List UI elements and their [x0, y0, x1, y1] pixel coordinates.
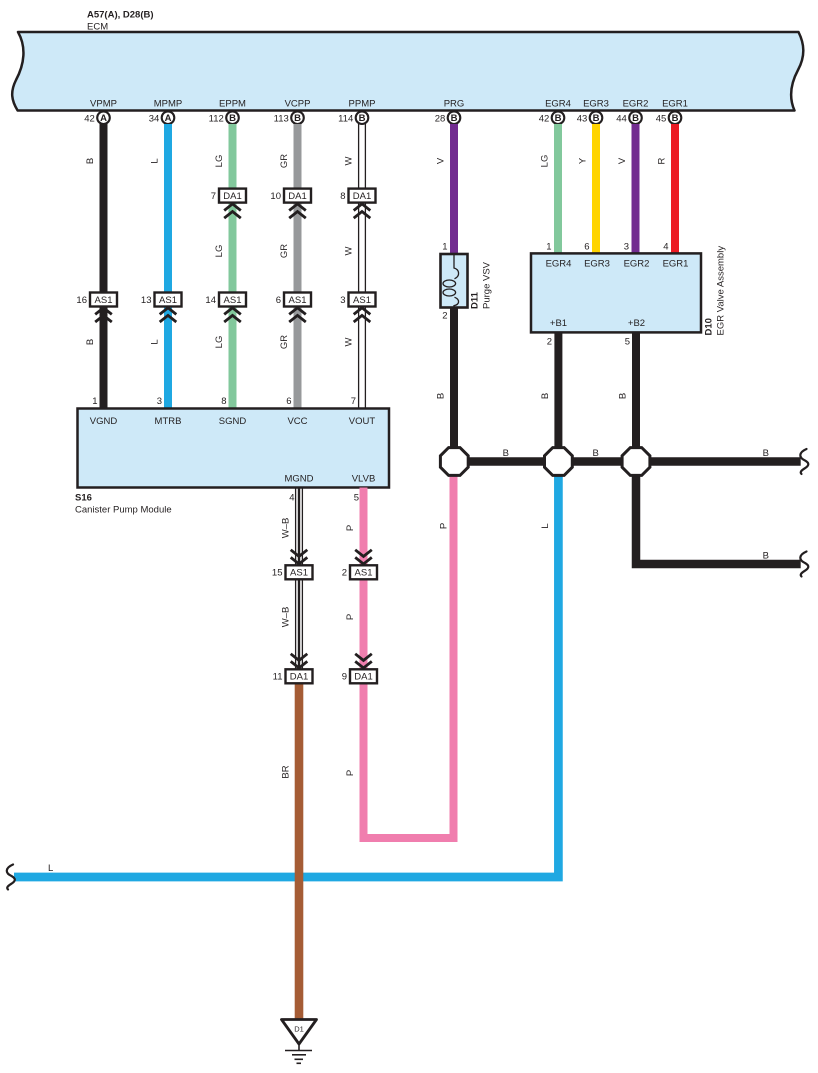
svg-text:A57(A), D28(B): A57(A), D28(B)	[87, 10, 154, 21]
svg-text:V: V	[617, 157, 628, 164]
svg-text:ECM: ECM	[87, 22, 108, 33]
wire B D11 to junction	[450, 307, 458, 462]
svg-text:B: B	[503, 448, 509, 459]
svg-text:EGR4: EGR4	[545, 99, 571, 110]
svg-text:4: 4	[289, 493, 294, 504]
svg-text:D11: D11	[470, 291, 481, 309]
svg-text:P: P	[345, 770, 356, 776]
svg-text:113: 113	[274, 113, 289, 124]
junction node J2	[545, 448, 573, 476]
svg-text:AS1: AS1	[224, 295, 242, 306]
svg-text:5: 5	[354, 493, 359, 504]
ECM connector pin 43(B) EGR3	[577, 111, 603, 124]
wire break symbol right upper	[800, 449, 808, 474]
svg-text:GR: GR	[279, 154, 290, 168]
svg-text:B: B	[632, 113, 639, 124]
svg-text:3: 3	[340, 295, 345, 306]
svg-text:B: B	[672, 113, 679, 124]
svg-text:EPPM: EPPM	[219, 99, 246, 110]
svg-text:VOUT: VOUT	[349, 416, 376, 427]
svg-text:1: 1	[92, 396, 97, 407]
svg-text:114: 114	[338, 113, 353, 124]
svg-text:GR: GR	[279, 335, 290, 349]
svg-text:B: B	[618, 393, 629, 399]
wire PRG V ECM to D11	[450, 124, 458, 254]
svg-text:+B2: +B2	[628, 318, 645, 329]
svg-text:EGR Valve Assembly: EGR Valve Assembly	[716, 246, 727, 336]
svg-text:LG: LG	[214, 155, 225, 168]
svg-text:Canister Pump Module: Canister Pump Module	[75, 505, 172, 516]
svg-text:10: 10	[270, 191, 281, 202]
svg-text:DA1: DA1	[354, 672, 372, 683]
svg-text:MPMP: MPMP	[154, 99, 183, 110]
connector AS1 pin 16	[76, 293, 117, 323]
ECM connector pin 113(B) VCPP	[274, 111, 304, 124]
svg-text:EGR1: EGR1	[662, 99, 688, 110]
svg-text:3: 3	[157, 396, 162, 407]
svg-text:W–B: W–B	[281, 607, 292, 628]
D11 Purge VSV block	[441, 254, 493, 309]
svg-text:B: B	[593, 448, 599, 459]
svg-text:8: 8	[221, 396, 226, 407]
wire break symbol right lower	[800, 552, 808, 577]
connector AS1 pin 13	[141, 293, 182, 323]
svg-text:VLVB: VLVB	[352, 474, 376, 485]
svg-text:SGND: SGND	[219, 416, 247, 427]
wire BR to ground D1	[295, 685, 304, 1020]
wire break symbol left	[7, 865, 15, 890]
svg-text:B: B	[540, 393, 551, 399]
svg-text:EGR2: EGR2	[624, 259, 650, 270]
wire MGND W-B S16 to DA1	[296, 488, 303, 669]
svg-text:P: P	[345, 525, 356, 531]
svg-text:11: 11	[273, 672, 283, 683]
svg-text:B: B	[763, 551, 769, 562]
svg-text:P: P	[439, 523, 450, 529]
connector AS1 pin 15	[272, 550, 313, 580]
wire B +B2 to junction	[632, 332, 640, 461]
svg-text:AS1: AS1	[353, 295, 371, 306]
wire EGR3 colour Y ECM to D10	[592, 124, 600, 253]
svg-text:R: R	[657, 157, 668, 164]
junction node J3	[622, 448, 650, 476]
svg-text:3: 3	[624, 242, 629, 253]
wire MPMP colour L ECM to S16	[164, 124, 172, 410]
svg-text:A: A	[165, 113, 172, 124]
svg-text:AS1: AS1	[95, 295, 113, 306]
ECM connector pin 45(B) EGR1	[656, 111, 682, 124]
svg-text:DA1: DA1	[290, 672, 308, 683]
connector AS1 pin 3	[340, 293, 375, 323]
svg-text:112: 112	[209, 113, 224, 124]
svg-text:VCC: VCC	[287, 416, 307, 427]
wire PPMP colour W ECM to S16	[359, 124, 366, 410]
svg-text:L: L	[150, 158, 161, 163]
ECM connector pin 28(B) PRG	[435, 111, 461, 124]
ECM connector pin 42(A) VPMP	[84, 111, 110, 124]
svg-text:B: B	[294, 113, 301, 124]
svg-text:7: 7	[351, 396, 356, 407]
wire EPPM colour LG ECM to S16	[229, 124, 237, 410]
svg-text:V: V	[436, 157, 447, 164]
svg-text:43: 43	[577, 113, 588, 124]
svg-text:PRG: PRG	[444, 99, 465, 110]
svg-text:EGR2: EGR2	[623, 99, 649, 110]
svg-text:9: 9	[342, 672, 347, 683]
svg-text:PPMP: PPMP	[349, 99, 376, 110]
ECM connector pin 42(B) EGR4	[539, 111, 565, 124]
wire L junction2 down and left to break	[14, 474, 558, 877]
svg-text:EGR3: EGR3	[583, 99, 609, 110]
svg-text:D10: D10	[704, 318, 715, 335]
wire B +B1 to junction	[554, 332, 562, 461]
svg-text:B: B	[436, 393, 447, 399]
ECM connector pin 114(B) PPMP	[338, 111, 368, 124]
svg-text:1: 1	[546, 242, 551, 253]
S16 Canister Pump Module block	[75, 409, 389, 516]
wire B horizontal bus junction1-junction3 to break	[454, 457, 800, 466]
ECM connector pin 44(B) EGR2	[616, 111, 642, 124]
svg-text:2: 2	[442, 311, 447, 322]
svg-text:2: 2	[342, 568, 347, 579]
svg-text:W: W	[344, 156, 355, 165]
svg-text:42: 42	[84, 113, 95, 124]
svg-text:VPMP: VPMP	[90, 99, 117, 110]
svg-text:44: 44	[616, 113, 627, 124]
svg-text:B: B	[85, 158, 96, 164]
svg-text:S16: S16	[75, 493, 92, 504]
wire VLVB P S16 to junction (U shape)	[364, 474, 454, 838]
svg-text:B: B	[229, 113, 236, 124]
svg-text:LG: LG	[540, 155, 551, 168]
svg-text:DA1: DA1	[223, 191, 241, 202]
svg-text:AS1: AS1	[159, 295, 177, 306]
svg-text:+B1: +B1	[550, 318, 567, 329]
svg-text:W–B: W–B	[281, 518, 292, 539]
svg-text:14: 14	[205, 295, 216, 306]
svg-text:MTRB: MTRB	[155, 416, 182, 427]
junction node J1	[440, 448, 468, 476]
svg-text:W: W	[344, 337, 355, 346]
svg-text:EGR3: EGR3	[584, 259, 610, 270]
svg-text:B: B	[593, 113, 600, 124]
connector DA1 pin 11	[273, 654, 313, 684]
connector AS1 pin 2	[342, 550, 377, 580]
ground symbol D1	[282, 1020, 317, 1064]
svg-text:VGND: VGND	[90, 416, 118, 427]
svg-text:LG: LG	[214, 245, 225, 258]
svg-text:Y: Y	[578, 157, 589, 164]
svg-text:BR: BR	[281, 765, 292, 778]
wire B junction3 down and right to break	[636, 470, 801, 564]
svg-text:B: B	[85, 339, 96, 345]
svg-text:LG: LG	[214, 336, 225, 349]
svg-text:16: 16	[76, 295, 87, 306]
svg-text:4: 4	[663, 242, 668, 253]
svg-text:B: B	[451, 113, 458, 124]
svg-text:AS1: AS1	[289, 295, 307, 306]
svg-text:A: A	[100, 113, 107, 124]
svg-text:MGND: MGND	[284, 474, 313, 485]
wire EGR4 colour LG ECM to D10	[554, 124, 562, 253]
svg-text:B: B	[359, 113, 366, 124]
svg-text:DA1: DA1	[353, 191, 371, 202]
wire EGR2 colour V ECM to D10	[632, 124, 640, 253]
svg-text:13: 13	[141, 295, 152, 306]
svg-text:6: 6	[584, 242, 589, 253]
connector DA1 pin 10	[270, 189, 311, 219]
wire VPMP colour B ECM to S16	[100, 124, 108, 410]
svg-text:P: P	[345, 614, 356, 620]
D10 EGR Valve Assembly block	[531, 246, 727, 336]
svg-text:AS1: AS1	[290, 568, 308, 579]
ECM connector pin 34(A) MPMP	[149, 111, 175, 124]
connector DA1 pin 7	[211, 189, 246, 219]
svg-text:D1: D1	[294, 1025, 304, 1034]
svg-text:42: 42	[539, 113, 550, 124]
svg-text:15: 15	[272, 568, 283, 579]
svg-text:2: 2	[547, 337, 552, 348]
svg-text:W: W	[344, 246, 355, 255]
svg-text:45: 45	[656, 113, 667, 124]
connector AS1 pin 6	[276, 293, 311, 323]
svg-text:L: L	[150, 339, 161, 344]
svg-text:5: 5	[625, 337, 630, 348]
svg-text:6: 6	[276, 295, 281, 306]
svg-text:B: B	[555, 113, 562, 124]
svg-text:DA1: DA1	[288, 191, 306, 202]
svg-text:28: 28	[435, 113, 446, 124]
svg-text:GR: GR	[279, 244, 290, 258]
svg-text:EGR1: EGR1	[663, 259, 689, 270]
svg-text:6: 6	[286, 396, 291, 407]
ECM connector pin 112(B) EPPM	[209, 111, 239, 124]
wire VCPP colour GR ECM to S16	[294, 124, 302, 410]
connector AS1 pin 14	[205, 293, 246, 323]
svg-text:B: B	[763, 448, 769, 459]
svg-text:34: 34	[149, 113, 160, 124]
ECM block A57(A), D28(B)	[12, 10, 803, 111]
svg-text:Purge VSV: Purge VSV	[482, 261, 493, 309]
connector DA1 pin 9	[342, 654, 377, 684]
svg-text:L: L	[48, 863, 53, 874]
svg-text:AS1: AS1	[355, 568, 373, 579]
svg-text:L: L	[540, 523, 551, 528]
connector DA1 pin 8	[340, 189, 375, 219]
svg-text:1: 1	[442, 242, 447, 253]
svg-text:7: 7	[211, 191, 216, 202]
wire EGR1 colour R ECM to D10	[671, 124, 679, 253]
svg-text:VCPP: VCPP	[285, 99, 311, 110]
svg-text:8: 8	[340, 191, 345, 202]
svg-text:EGR4: EGR4	[546, 259, 572, 270]
